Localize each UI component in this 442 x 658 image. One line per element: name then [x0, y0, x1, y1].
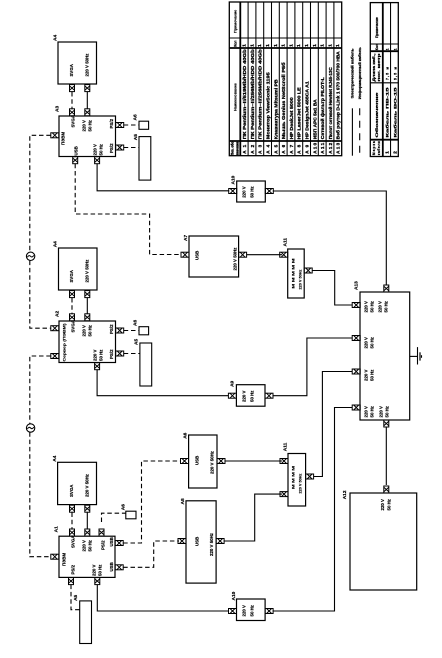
pin XS: UPS A9 inlet (left) [228, 393, 236, 398]
pin XS: printer A8 power (right) [216, 539, 224, 544]
svg-text:Наименование: Наименование [233, 83, 237, 111]
svg-text:А7: А7 [183, 235, 189, 241]
svg-text:1: 1 [312, 44, 317, 47]
pin XS: A13 left pin4 [352, 405, 360, 410]
svg-text:220 V: 220 V [364, 337, 369, 349]
cable table header texts [372, 17, 381, 155]
keyboard A5 (bottom cluster) [73, 594, 92, 643]
wire: PC A2 to keyboard A5 (dashed) [124, 353, 140, 355]
svg-text:А11: А11 [282, 442, 288, 451]
pin XS: printer A7 power (right) [239, 252, 247, 257]
pin XS: PC A1 PS/2 mouse (top) [99, 529, 104, 536]
svg-text:Длина каб.,: Длина каб., [372, 53, 376, 81]
connector node (cable coupler circle 2) [26, 424, 34, 432]
svg-text:А11: А11 [282, 238, 288, 247]
svg-text:50 Hz: 50 Hz [370, 405, 375, 417]
wire: PC A3 LAN left dashed to junction column [30, 135, 51, 252]
svg-text:1: 1 [304, 44, 309, 47]
legend: information cable (dashed) [358, 47, 362, 156]
svg-text:50 Hz: 50 Hz [387, 498, 392, 510]
svg-text:50 Hz: 50 Hz [250, 186, 255, 198]
svg-text:220 V: 220 V [93, 349, 98, 361]
wire: junction circle1 down to PC A2 (dashed) [30, 261, 51, 329]
svg-text:А13: А13 [336, 142, 341, 153]
svg-text:50 Hz: 50 Hz [370, 300, 375, 312]
pin XS: UPS A10 inlet (left) [229, 189, 237, 194]
svg-text:220 V: 220 V [364, 369, 369, 381]
svg-text:Обозначение: Обозначение [375, 92, 379, 137]
pin XS: PC A3 PS/2 keyboard (right) [116, 145, 124, 150]
svg-text:НР DesignJet 488CA A1: НР DesignJet 488CA A1 [305, 81, 310, 139]
svg-text:Монитор ViewSonic 1195: Монитор ViewSonic 1195 [266, 72, 271, 140]
svg-text:пог. метр: пог. метр [377, 54, 381, 82]
wire: UPS A10b right up to power strip A13 pin4 [273, 408, 352, 612]
pin XS: PC A1 PS/2 keyboard (bottom) [69, 578, 74, 585]
svg-text:1: 1 [265, 44, 270, 47]
monitor A4 (middle cluster) [53, 241, 98, 290]
pin XS: monitor A4 bot SVGA (bottom) [70, 505, 75, 512]
pin XS: PC A1 220V (top) [85, 529, 90, 536]
pin XS: PC A1 220V out (bottom) [95, 578, 100, 585]
svg-text:А5: А5 [134, 339, 140, 345]
svg-text:Кабель ПВ-15: Кабель ПВ-15 [386, 87, 390, 137]
pin XS: PC A3 LAN (left) [51, 133, 59, 138]
svg-text:PS/2: PS/2 [109, 324, 114, 334]
wire: monitor bot power to PC A1 (solid) [86, 513, 88, 530]
svg-text:ПЭВМ: ПЭВМ [61, 132, 66, 145]
svg-text:А3: А3 [55, 106, 61, 112]
wire: PC A2 to mouse A6 (dashed) [124, 330, 139, 332]
surge strip A11 [282, 238, 304, 298]
pin XS: PC A2 220V (top) [85, 314, 90, 321]
svg-text:Поз. обо: Поз. обо [231, 141, 235, 155]
svg-text:М М М М М: М М М М М [292, 259, 296, 289]
wire: surge strip A11 to power strip A13 pin1 [312, 271, 352, 306]
svg-text:PS/2: PS/2 [109, 118, 114, 128]
svg-text:50 Hz: 50 Hz [88, 119, 93, 131]
svg-text:Примечание: Примечание [375, 17, 379, 38]
svg-text:кабеля: кабеля [377, 141, 381, 155]
svg-text:50 Hz: 50 Hz [98, 564, 103, 576]
svg-text:Сервер (ПЭВМ): Сервер (ПЭВМ) [63, 323, 67, 362]
pin XS: monitor A4 mid SVGA (bottom) [70, 291, 75, 298]
wire: monitor A4 VGA to PC A3 (dashed) [71, 92, 73, 109]
svg-text:значение: значение [236, 142, 240, 156]
svg-text:SVGA: SVGA [69, 484, 74, 497]
svg-text:А6: А6 [133, 320, 139, 326]
pin XS: printer A7 USB (left) [181, 252, 189, 257]
svg-text:1: 1 [288, 44, 293, 47]
svg-text:50 Hz: 50 Hz [370, 336, 375, 348]
svg-text:А4: А4 [52, 455, 58, 461]
pin XS: UPS A10 outlet (right) [265, 189, 273, 194]
svg-text:А5: А5 [133, 134, 139, 140]
UPS A10b (bottom cluster) [231, 591, 265, 620]
svg-text:1: 1 [257, 44, 262, 47]
pin XS: printer A8 USB (left) [178, 539, 186, 544]
keyboard A5 (top cluster) [133, 134, 151, 180]
mouse A6 (bottom cluster) [120, 504, 136, 519]
PC A3 (top cluster system unit) [55, 106, 116, 157]
pin XS: PC A3 220V (top) [85, 109, 90, 116]
svg-text:А10: А10 [231, 591, 237, 600]
cable table rows [385, 48, 398, 154]
pin XS: PC A2 PS/2 mouse (right) [116, 328, 124, 333]
ground symbol [410, 347, 422, 364]
wire: PC A1 220V down-right to UPS box bottom [97, 585, 229, 611]
svg-text:USB: USB [74, 146, 79, 155]
wire: PC A2 LAN2 dashed down to circle2 [30, 356, 51, 424]
svg-text:1: 1 [385, 151, 390, 154]
keyboard A5 (middle cluster) [134, 339, 152, 386]
svg-text:ПК Pentium–II/256Mb/HDD 40Gb: ПК Pentium–II/256Mb/HDD 40Gb [258, 49, 263, 139]
monitor A4 (bottom cluster) [52, 455, 97, 504]
svg-text:220 V 50Hz: 220 V 50Hz [299, 474, 303, 494]
wire: PC A1 PS/2 down to keyboard A5 (dashed) [71, 585, 80, 610]
svg-text:А6: А6 [120, 504, 126, 510]
UPS A9 [230, 380, 265, 406]
svg-text:220 V 50Hz: 220 V 50Hz [233, 247, 238, 271]
pin XS: printer A6b USB (left) [181, 459, 189, 464]
svg-text:1: 1 [273, 44, 278, 47]
pin XS: PC A3 SVGA (top) [70, 109, 75, 116]
monitor A4 (top cluster) [53, 35, 97, 84]
wire: UPS A10 right to power strip A13 top pin [273, 191, 386, 285]
pin XS: surge strip A11 inlet (left) [280, 252, 288, 257]
PC A2 (server system unit) [55, 311, 116, 363]
svg-text:220 V 50Hz: 220 V 50Hz [85, 53, 90, 77]
wire: monitor A4 power to PC A3 (solid) [86, 92, 88, 109]
svg-text:50 Hz: 50 Hz [385, 405, 390, 417]
svg-text:1: 1 [296, 44, 301, 47]
pin XS: A13 left pin3 [352, 369, 360, 374]
svg-text:220 V: 220 V [82, 325, 87, 337]
pin XS: UPS A10b inlet (left) [229, 609, 237, 614]
surge strip A11b (bottom) [282, 442, 305, 506]
svg-text:1: 1 [242, 44, 247, 47]
svg-text:А6: А6 [133, 114, 139, 120]
connector node (cable coupler circle 1) [26, 252, 34, 260]
pin XS: A12 top inlet [384, 486, 389, 493]
pin XS: PC A3 PS/2 mouse (right) [116, 123, 124, 128]
svg-text:50 Hz: 50 Hz [250, 390, 255, 402]
svg-text:USB: USB [109, 562, 114, 571]
svg-text:Электрический кабель: Электрический кабель [351, 49, 355, 99]
pin XS: PC A3 220V out (bottom) [95, 157, 100, 164]
wire: PC A1 PS/2 up-right to mouse A6 (dashed) [102, 513, 126, 522]
svg-text:USB: USB [195, 251, 200, 260]
wire: printer A6b to surge strip switch2 upper inlet [225, 460, 282, 462]
svg-text:Примечание: Примечание [233, 10, 237, 33]
pin XS: surge strip A11 outlet (right) [304, 268, 312, 273]
svg-text:SVGA: SVGA [69, 63, 74, 76]
svg-text:А4: А4 [53, 241, 59, 247]
printer A7 (HP DeskJet) [183, 235, 239, 277]
svg-text:220 V 50Hz: 220 V 50Hz [85, 259, 90, 283]
svg-text:1: 1 [249, 44, 254, 47]
svg-text:SVGA: SVGA [69, 269, 74, 282]
svg-text:ПК Pentium–II/519Mb/HDD 40Gb: ПК Pentium–II/519Mb/HDD 40Gb [242, 49, 247, 139]
wire: surge strip A11b right up to power strip A13 pin3 [314, 372, 352, 477]
pin XS: surge strip A11b inlet2 (left) [280, 492, 288, 497]
svg-text:PS/2: PS/2 [101, 540, 106, 550]
svg-text:220 V: 220 V [242, 186, 247, 198]
svg-text:ИБП АРС 5и1 ВА: ИБП АРС 5и1 ВА [312, 99, 317, 140]
svg-text:Веб роутер D-Link 1 970 500/70: Веб роутер D-Link 1 970 500/700 НВА [335, 51, 341, 140]
pin XS: monitor A4 SVGA (bottom) [70, 85, 75, 92]
wire: PC A3 USB dashed to printer A7 [75, 164, 181, 255]
svg-text:1: 1 [335, 44, 340, 47]
wire: PC A1 USB1 dashed to printer A6b [123, 461, 180, 543]
pin XS: PC A1 LAN (left) [51, 554, 59, 559]
svg-text:Мышь Genius NetScroll Р5б: Мышь Genius NetScroll Р5б [280, 62, 286, 139]
svg-text:М М М М: М М М М [292, 466, 296, 489]
svg-text:А10: А10 [231, 175, 237, 184]
svg-text:220 V: 220 V [364, 406, 369, 418]
pin XS: monitor A4 220V (bottom) [85, 85, 90, 92]
pin XS: PC A2 LAN2 (left) [51, 354, 59, 359]
svg-text:220 V: 220 V [82, 540, 87, 552]
printer A6b (bottom cluster USB device) [182, 432, 217, 488]
pin XS: A13 bottom outlet [384, 420, 389, 427]
mouse A6 (middle cluster) [133, 320, 149, 335]
svg-text:220 V: 220 V [242, 605, 247, 617]
legend: electric cable (solid) [351, 49, 355, 156]
pin XS: A13 left pin2 [352, 336, 360, 341]
pin XS: surge strip A11b outlet (right) [306, 474, 314, 479]
svg-text:PS/2: PS/2 [109, 349, 114, 359]
pin XS: monitor A4 mid 220V (bottom) [85, 291, 90, 298]
pin XS: UPS A10b outlet (right) [265, 609, 273, 614]
wire: printer A8 right up to surge strip switch2 lower inlet [224, 494, 282, 541]
pin XS: UPS A9 outlet (right) [265, 393, 273, 398]
UPS A10 [231, 175, 266, 202]
svg-text:А1: А1 [54, 526, 60, 532]
svg-text:USB: USB [195, 456, 200, 465]
svg-text:220 V: 220 V [93, 144, 98, 156]
svg-text:Сетевой фильтр PILOT-L: Сетевой фильтр PILOT-L [319, 77, 325, 139]
svg-text:1: 1 [327, 44, 332, 47]
svg-text:50 Hz: 50 Hz [99, 349, 104, 361]
power distribution strip A13 [354, 281, 410, 420]
svg-text:Марка: Марка [372, 141, 376, 155]
wire: PC A3 to keyboard A5 (dashed) [124, 147, 139, 149]
svg-text:USB: USB [109, 537, 114, 546]
UPS A12 (big box bottom right) [342, 490, 417, 590]
svg-text:50 Hz: 50 Hz [88, 539, 93, 551]
pin XS: PC A2 LAN1 (left) [51, 326, 59, 331]
svg-text:50 Hz: 50 Hz [99, 143, 104, 155]
pin XS: A13 top inlet [384, 285, 389, 292]
svg-text:Информационный кабель: Информационный кабель [358, 47, 362, 99]
parts table item rows A1..A13 [242, 44, 341, 154]
svg-text:Кабель ВО-15: Кабель ВО-15 [393, 87, 397, 137]
parts table (перечень элементов) frame [229, 2, 341, 156]
wire: PC A3 to mouse A6 (dashed) [124, 124, 139, 126]
pin XS: PC A1 SVGA (top) [70, 529, 75, 536]
svg-text:А10: А10 [312, 142, 317, 153]
svg-text:А12: А12 [342, 490, 348, 499]
svg-text:220 V 50Hz: 220 V 50Hz [209, 532, 214, 556]
svg-text:220 V 50Hz: 220 V 50Hz [85, 473, 90, 497]
cable table frame [370, 3, 398, 157]
svg-text:220 V 50Hz: 220 V 50Hz [299, 270, 303, 290]
svg-text:50 Hz: 50 Hz [88, 324, 93, 336]
svg-text:PS/2: PS/2 [109, 143, 114, 153]
svg-text:1: 1 [393, 48, 397, 50]
pin XS: PC A2 PS/2 keyboard (right) [116, 351, 124, 356]
svg-text:PS/2: PS/2 [71, 564, 76, 574]
svg-text:А13: А13 [354, 281, 360, 290]
pin XS: printer A6b power (right) [217, 459, 225, 464]
svg-text:Клавиатура Mitsumi РВ: Клавиатура Mitsumi РВ [273, 79, 278, 140]
pin XS: PC A2 220V out (bottom) [95, 363, 100, 370]
svg-text:1: 1 [320, 44, 325, 47]
wire: monitor mid power to PC A2 (solid) [86, 298, 88, 314]
wire: PC A3 220V down-right to UPS A10 [97, 164, 229, 191]
wire: PC A1 USB2 dashed to printer A8 [123, 541, 179, 567]
svg-text:НР DeskJet 5000: НР DeskJet 5000 [289, 97, 294, 140]
wire: monitor mid VGA to PC A2 (dashed) [71, 298, 73, 314]
svg-text:А9: А9 [230, 380, 236, 386]
wire: circle2 down to PC A1 LAN (dashed) [30, 432, 51, 556]
pin XS: PC A1 USB2 (right) [115, 565, 123, 570]
pin XS: PC A2 SVGA (top) [70, 314, 75, 321]
svg-text:220 V: 220 V [92, 564, 97, 576]
svg-text:1: 1 [281, 44, 286, 47]
wire: UPS A9 right up to power strip A13 pin2 [273, 338, 352, 396]
pin XS: A13 left pin1 [352, 303, 360, 308]
svg-text:ПЭВМ: ПЭВМ [62, 553, 67, 566]
svg-text:50 Hz: 50 Hz [384, 300, 389, 312]
parts table header texts [231, 10, 240, 155]
svg-text:А12: А12 [328, 142, 333, 153]
wire: A13 bottom to UPS A12 [385, 427, 387, 485]
pin XS: monitor A4 bot 220V (bottom) [85, 505, 90, 512]
pin XS: PC A3 USB (bottom) [73, 157, 78, 164]
svg-text:А6: А6 [182, 432, 188, 438]
pin XS: PC A1 USB1 (right) [115, 541, 123, 546]
svg-text:Кол: Кол [375, 44, 379, 50]
wire: monitor bot VGA to PC A1 (dashed) [71, 513, 73, 530]
PC A1 (bottom cluster system unit) [54, 526, 116, 577]
svg-text:220 V: 220 V [378, 301, 383, 313]
svg-text:А5: А5 [73, 594, 79, 600]
svg-text:Пилот сетевой HewNet RJ45-13C: Пилот сетевой HewNet RJ45-13C [327, 67, 333, 140]
svg-text:А8: А8 [180, 498, 186, 504]
svg-text:USB: USB [195, 537, 200, 546]
mouse A6 (top cluster) [133, 114, 149, 129]
svg-text:А11: А11 [320, 142, 325, 153]
svg-text:А4: А4 [53, 35, 59, 41]
svg-text:220 V: 220 V [242, 390, 247, 402]
svg-text:220 V: 220 V [364, 301, 369, 313]
pin XS: surge strip A11b inlet1 (left) [280, 459, 288, 464]
svg-text:Кол: Кол [234, 41, 238, 47]
svg-text:ПК Pentium–II/256Mb/HDD 40Gb: ПК Pentium–II/256Mb/HDD 40Gb [250, 49, 255, 139]
svg-text:2: 2 [392, 151, 397, 154]
svg-text:220 V: 220 V [82, 120, 87, 132]
svg-text:220 V 50Hz: 220 V 50Hz [210, 450, 215, 474]
svg-text:SVGA: SVGA [71, 535, 76, 548]
wire: PC A2 220V down-right to UPS A9 [97, 370, 228, 396]
svg-text:1: 1 [386, 48, 390, 50]
svg-text:А2: А2 [55, 311, 61, 317]
svg-text:НР LaserJet 5000 LE: НР LaserJet 5000 LE [297, 87, 302, 139]
wire: printer A7 to surge strip A11 [247, 254, 282, 256]
svg-text:50 Hz: 50 Hz [250, 604, 255, 616]
printer A8 (bottom cluster USB device 2) [180, 498, 216, 583]
svg-text:220 V: 220 V [379, 406, 384, 418]
svg-text:220 V: 220 V [380, 499, 385, 511]
svg-text:50 Hz: 50 Hz [370, 369, 375, 381]
